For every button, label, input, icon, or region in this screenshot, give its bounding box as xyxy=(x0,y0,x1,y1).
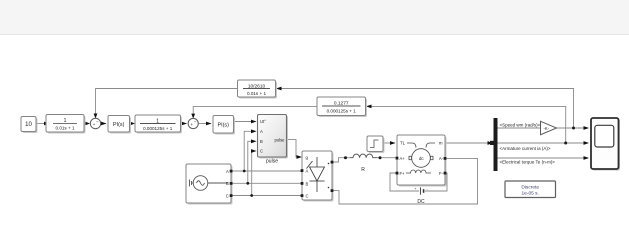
svg-text:10: 10 xyxy=(25,122,32,128)
svg-text:0.000125s + 1: 0.000125s + 1 xyxy=(143,126,173,131)
svg-text:A: A xyxy=(226,169,229,174)
svg-text:A-: A- xyxy=(439,156,444,161)
svg-text:F-: F- xyxy=(439,171,444,176)
svg-text:−: − xyxy=(194,119,197,124)
svg-text:1e-05 s.: 1e-05 s. xyxy=(522,191,539,197)
svg-text:<Speed wm (rad/s)>: <Speed wm (rad/s)> xyxy=(500,123,541,128)
svg-text:A: A xyxy=(260,129,263,134)
svg-text:0.01s + 1: 0.01s + 1 xyxy=(247,91,266,96)
svg-text:dc: dc xyxy=(419,156,425,161)
svg-text:Ut°: Ut° xyxy=(260,119,266,124)
svg-text:pulse: pulse xyxy=(266,159,278,165)
svg-text:0.000125s + 1: 0.000125s + 1 xyxy=(327,108,357,113)
svg-text:pulse: pulse xyxy=(274,137,285,142)
svg-text:<Armature current ia (A)>: <Armature current ia (A)> xyxy=(500,146,551,151)
svg-text:C: C xyxy=(306,194,309,199)
svg-text:Discrete: Discrete xyxy=(521,184,539,190)
svg-text:F+: F+ xyxy=(400,171,406,176)
svg-text:R: R xyxy=(361,167,365,173)
svg-text:TL: TL xyxy=(400,141,406,146)
svg-text:−: − xyxy=(96,119,99,124)
svg-text:<Electrical torque Te (n-m)>: <Electrical torque Te (n-m)> xyxy=(500,160,556,165)
svg-text:A+: A+ xyxy=(400,156,406,161)
svg-text:B: B xyxy=(306,181,309,186)
svg-text:DC: DC xyxy=(417,199,425,205)
svg-text:0.01s + 1: 0.01s + 1 xyxy=(55,126,74,131)
svg-text:PI(s): PI(s) xyxy=(113,122,125,128)
svg-text:PI(s): PI(s) xyxy=(218,122,230,128)
svg-text:B: B xyxy=(260,139,263,144)
svg-text:C: C xyxy=(260,149,263,154)
svg-text:-K-: -K- xyxy=(544,126,550,131)
svg-text:C: C xyxy=(226,193,229,198)
svg-text:m: m xyxy=(439,141,443,146)
svg-text:A: A xyxy=(306,169,309,174)
svg-text:B: B xyxy=(226,181,229,186)
